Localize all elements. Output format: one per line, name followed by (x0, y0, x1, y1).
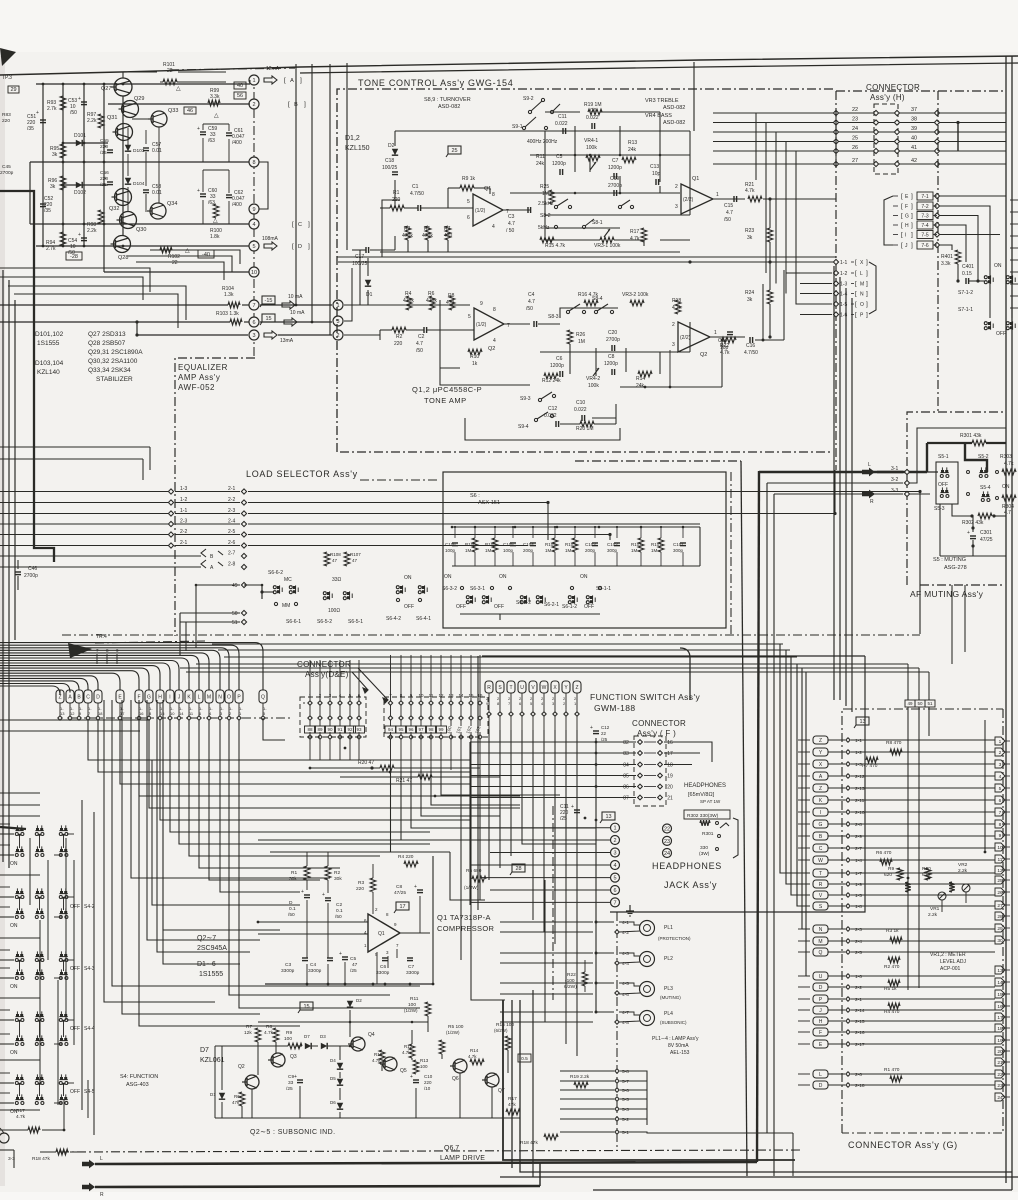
svg-text:200p: 200p (585, 548, 596, 553)
svg-text:ON: ON (499, 574, 507, 580)
wire vert (939, 504, 941, 556)
dashdot bottom rail (60, 1150, 800, 1152)
junction dots staircase (344, 747, 347, 750)
connector stadium E (116, 690, 124, 703)
svg-text:83: 83 (623, 751, 629, 757)
svg-text:R303: R303 (1000, 454, 1012, 460)
svg-text:Q2: Q2 (238, 1064, 245, 1070)
diode D2 top (347, 1001, 353, 1007)
svg-text:R7: R7 (246, 1024, 252, 1030)
pot symbol VR1 (938, 892, 946, 900)
svg-text:D2: D2 (356, 998, 362, 1003)
svg-text:S8-4: S8-4 (592, 296, 603, 302)
wire compressor gnd bus (265, 983, 433, 985)
svg-text:82: 82 (623, 740, 629, 746)
wire row feed2 (0, 967, 10, 969)
svg-text:/10: /10 (424, 1086, 431, 1091)
wire sub out right (430, 932, 433, 934)
switch b (1010, 322, 1013, 325)
svg-text:7-6: 7-6 (921, 243, 928, 249)
svg-text:S6-2-2: S6-2-2 (516, 600, 531, 606)
svg-text:Q: Q (819, 950, 823, 956)
svg-text:Q2∼7: Q2∼7 (197, 935, 216, 942)
wire (713, 198, 734, 200)
svg-text:7: 7 (252, 303, 255, 309)
flag -15 (262, 296, 275, 304)
connector G row V 1-5 (813, 891, 828, 899)
jack contacts (700, 820, 710, 826)
TR.4 dashdot (95, 641, 205, 643)
wire right bus (699, 527, 701, 566)
svg-text:TONE AMP: TONE AMP (424, 396, 467, 405)
wire pair link (19, 835, 21, 848)
transistor Q3 sub (271, 1053, 285, 1067)
transistor Q28 (114, 236, 131, 253)
wire R101 loop (123, 72, 157, 78)
svg-text:D1,2: D1,2 (345, 135, 360, 142)
junction (195, 584, 198, 587)
svg-text:15: 15 (997, 992, 1003, 998)
svg-text:24: 24 (997, 1095, 1003, 1101)
svg-text:ASD-082: ASD-082 (663, 105, 685, 111)
diamond under stadium (86, 716, 90, 720)
svg-text:]: ] (911, 213, 913, 220)
svg-text:OFF: OFF (456, 604, 466, 610)
connector G pin 21 (995, 1058, 1005, 1066)
svg-text:38: 38 (911, 117, 917, 123)
wire feed (0, 997, 40, 999)
svg-text:VR4-1: VR4-1 (584, 138, 598, 144)
wire vert bl (63, 1100, 65, 1130)
dashdot vertical lamp bus (552, 806, 554, 1000)
DE dash borders g1 (303, 702, 305, 704)
wire R22 stub (584, 960, 586, 972)
junction (18, 897, 20, 899)
wire stadium drop (69, 703, 71, 716)
wire stair tr (869, 640, 905, 666)
wire arc (0, 673, 120, 690)
svg-text:24: 24 (664, 851, 670, 857)
svg-text:2-1: 2-1 (228, 486, 235, 492)
svg-text:2700p: 2700p (606, 337, 620, 343)
load selector row 1-3/2-1 (0, 491, 168, 493)
svg-text:R103 1.3k: R103 1.3k (216, 311, 239, 317)
svg-text:ASG-403: ASG-403 (126, 1082, 149, 1088)
svg-text:5: 5 (613, 876, 616, 882)
svg-text:+: + (197, 188, 200, 194)
wire ch1 S8 bus a (545, 214, 690, 216)
connector G pin 26 (995, 888, 1005, 896)
svg-text:400Hz 200Hz: 400Hz 200Hz (527, 139, 558, 145)
jack pin circle 23 (663, 836, 672, 845)
svg-text:Ass'y ( F ): Ass'y ( F ) (637, 729, 676, 738)
connector G pin 19 (995, 1036, 1005, 1044)
svg-text:MM: MM (282, 603, 290, 609)
wires from 7-x to right (940, 195, 1006, 197)
diamond under stadium (58, 716, 62, 720)
svg-text:47: 47 (352, 962, 358, 968)
svg-text:1: 1 (716, 192, 719, 198)
wire stair (121, 700, 123, 848)
wire pair jog (67, 1019, 74, 1021)
AF muting dashdot box (907, 412, 1005, 585)
inner box ch1 (382, 200, 400, 257)
connector G pin 2 (995, 748, 1005, 756)
svg-text:1200p: 1200p (552, 161, 566, 167)
svg-text:24k: 24k (636, 383, 645, 389)
svg-text:22: 22 (664, 827, 670, 833)
wire arc (0, 650, 220, 690)
switch S4 contact (60, 972, 63, 975)
svg-text:0.5: 0.5 (521, 1056, 528, 1062)
diamond under stadium (207, 716, 211, 720)
stub (1010, 247, 1018, 249)
svg-text:R23: R23 (745, 228, 754, 234)
svg-text:7-5: 7-5 (921, 233, 928, 239)
junction (83, 245, 86, 248)
lamp PL4 (640, 1011, 655, 1026)
AF muting inner box (917, 428, 1006, 470)
connector G row P 2-1 (813, 995, 828, 1003)
svg-text:R2: R2 (334, 870, 340, 876)
opamp Q2 1/2 (474, 308, 504, 340)
svg-text:OFF: OFF (938, 482, 948, 488)
wire stadium drop (554, 693, 556, 712)
svg-text:]: ] (300, 77, 302, 84)
svg-text:Q3: Q3 (290, 1054, 297, 1060)
jack pin circle 5 (611, 873, 620, 882)
wire left verticals (2, 270, 4, 862)
connector G pin 22 (995, 1070, 1005, 1078)
svg-text:1M: 1M (565, 548, 572, 553)
svg-text:C45: C45 (2, 164, 11, 170)
svg-text:2-6: 2-6 (228, 540, 235, 546)
junction (619, 192, 622, 195)
wire stadium drop (499, 693, 501, 712)
switch S4 contact (16, 911, 19, 914)
wire up loop1 (762, 284, 764, 340)
diode D3 (321, 1043, 327, 1049)
svg-text:/35: /35 (44, 208, 51, 214)
svg-text:47/25: 47/25 (394, 890, 406, 896)
svg-text:/50: /50 (416, 348, 423, 354)
svg-text:30: 30 (997, 938, 1003, 944)
svg-text:2: 2 (672, 322, 675, 328)
stadium T (507, 681, 515, 693)
wire tone-load vertical links (659, 452, 661, 470)
svg-text:R22: R22 (567, 972, 576, 978)
svg-text:CONNECTOR Ass'y (G): CONNECTOR Ass'y (G) (848, 1140, 958, 1150)
svg-text:15: 15 (265, 316, 271, 322)
svg-text:C7: C7 (408, 964, 414, 970)
svg-text:8: 8 (493, 307, 496, 313)
svg-text:I: I (169, 695, 170, 701)
wire pair link (63, 835, 65, 848)
svg-text:(1/2W): (1/2W) (404, 1008, 418, 1013)
box label -28 (66, 252, 82, 260)
opamp Q1 compressor (368, 914, 400, 952)
svg-text:C5: C5 (350, 956, 356, 962)
wire left horizontals to loadselector (0, 446, 150, 448)
wire stair (93, 700, 95, 812)
svg-text:F: F (905, 204, 908, 210)
svg-text:2.7k: 2.7k (46, 246, 56, 252)
wire staircase (170, 720, 430, 832)
svg-text:KZL150: KZL150 (345, 145, 370, 152)
svg-text:5-6: 5-6 (622, 1088, 629, 1094)
wire stair tr (771, 640, 905, 659)
jack pin circle 3 (611, 848, 620, 857)
connector DE box 88 (305, 726, 316, 733)
wire pair link (19, 961, 21, 971)
svg-text:Q1: Q1 (378, 931, 385, 937)
stadium V (529, 681, 537, 693)
equalizer box dashdot border (175, 358, 255, 636)
flag 13 (602, 812, 615, 820)
svg-text:Q34: Q34 (167, 201, 177, 207)
svg-text:4.7/50: 4.7/50 (744, 350, 758, 356)
wire stadium drop (219, 703, 221, 716)
junction (62, 1020, 64, 1022)
junction (62, 960, 64, 962)
svg-text:R14: R14 (470, 1048, 479, 1053)
R302 330 3W box (684, 810, 730, 819)
svg-text:2-9: 2-9 (855, 834, 862, 840)
stadium U (518, 681, 526, 693)
wire top second border line (300, 63, 1018, 73)
wire bus vertical x104 (103, 84, 105, 272)
svg-text:C401: C401 (962, 264, 974, 270)
switch S4 contact (36, 972, 39, 975)
svg-text:3: 3 (672, 342, 675, 348)
svg-text:20: 20 (667, 785, 673, 791)
connector G row H 2-15 (813, 1017, 828, 1025)
svg-text:2-5: 2-5 (228, 529, 235, 535)
wire stadium drop (532, 693, 534, 712)
transistor Q7 sub (485, 1073, 499, 1087)
switch S7-1-2 (988, 276, 991, 279)
svg-text:C3: C3 (285, 962, 291, 968)
svg-text:-40: -40 (202, 252, 210, 258)
svg-text:D3: D3 (320, 1034, 326, 1039)
nested feedback loops (150, 250, 240, 264)
svg-text:6: 6 (467, 215, 470, 221)
svg-text:1M: 1M (545, 548, 552, 553)
pin circle 3 (249, 330, 259, 340)
jack pin circle 2 (611, 836, 620, 845)
wire row feed2 (0, 906, 10, 908)
svg-text:94: 94 (388, 727, 394, 732)
wire row feed (0, 833, 14, 835)
diamond under stadium (227, 716, 231, 720)
svg-text:10: 10 (997, 845, 1003, 851)
wire row feed2 (0, 823, 10, 825)
connector G pin 1 (995, 737, 1005, 745)
svg-text:3-2: 3-2 (891, 477, 898, 483)
svg-text:C10: C10 (424, 1074, 433, 1079)
svg-text:Q31: Q31 (107, 115, 117, 121)
svg-text:[: [ (855, 270, 857, 277)
svg-text:88: 88 (307, 727, 313, 732)
svg-text:95: 95 (398, 727, 404, 732)
svg-text:[: [ (855, 291, 857, 298)
svg-text:(2/2): (2/2) (680, 335, 691, 341)
svg-text:S6-2-1: S6-2-1 (544, 602, 559, 608)
pin circle T3 (333, 316, 343, 326)
connector G pin 16 (995, 1002, 1005, 1010)
svg-text:N: N (218, 695, 222, 701)
svg-text:0.1: 0.1 (289, 906, 296, 912)
svg-text:S6-5-2: S6-5-2 (317, 619, 332, 625)
wire pin column dashdot (253, 75, 255, 358)
junction (18, 1020, 20, 1022)
svg-text:1M: 1M (578, 339, 585, 345)
svg-text:2: 2 (613, 838, 616, 844)
svg-text:D1∼6: D1∼6 (197, 961, 216, 968)
wire stadium drop (169, 703, 171, 716)
switch S4 contact (16, 1038, 19, 1041)
svg-text:H: H (158, 695, 162, 701)
connector H row 22/37 (713, 112, 1006, 114)
switch S4 contact (36, 828, 39, 831)
svg-text:1-1: 1-1 (180, 508, 187, 514)
svg-text:S6-3-1: S6-3-1 (470, 586, 485, 592)
junction (38, 897, 40, 899)
wire staircase (179, 720, 430, 844)
opamp Q1 2/2 (681, 184, 713, 214)
svg-text:OFF: OFF (494, 604, 504, 610)
svg-text:Q1 TA7318P-A: Q1 TA7318P-A (437, 913, 491, 922)
svg-text:C7: C7 (612, 158, 619, 164)
svg-text:+: + (410, 1074, 413, 1080)
svg-text:98: 98 (428, 727, 434, 732)
svg-text:Q33: Q33 (168, 108, 178, 114)
svg-text:22: 22 (601, 731, 607, 736)
wire pin8 loop (259, 162, 268, 209)
diamond under stadium (261, 716, 265, 720)
svg-text:C20: C20 (608, 330, 617, 336)
switch S4 contact (16, 1077, 19, 1080)
svg-text:4-2: 4-2 (622, 930, 629, 936)
svg-text:S9-2: S9-2 (523, 96, 534, 102)
junction (574, 154, 577, 157)
svg-text:16: 16 (139, 711, 144, 716)
wire arc (0, 655, 199, 690)
svg-text:2-17: 2-17 (855, 1042, 865, 1048)
wire fan (131, 700, 330, 878)
svg-text:2-2: 2-2 (228, 497, 235, 503)
connector stadium Q (259, 690, 267, 703)
svg-text:100/25: 100/25 (382, 165, 398, 171)
connector G row K 2-11 (813, 796, 828, 804)
svg-text:S9-4: S9-4 (518, 424, 529, 430)
svg-text:ON: ON (10, 1050, 18, 1056)
junction (62, 245, 65, 248)
svg-text:300p: 300p (673, 548, 684, 553)
stadium W (540, 681, 548, 693)
svg-text:+: + (294, 1074, 297, 1080)
connector H row 26/41 (713, 150, 1006, 152)
diamond under stadium (68, 716, 72, 720)
svg-text:JACK Ass'y: JACK Ass'y (664, 880, 717, 890)
svg-text:]: ] (866, 270, 868, 277)
switch S4 contact (36, 1097, 39, 1100)
svg-text:/25: /25 (286, 1086, 293, 1092)
tone control top dashdot to right (836, 90, 1005, 92)
svg-text:]: ] (911, 203, 913, 210)
wire stadium drop (262, 703, 264, 716)
svg-text:S6-6-2: S6-6-2 (268, 570, 283, 576)
wire pair link (63, 1021, 65, 1037)
svg-text:Z: Z (819, 738, 822, 744)
svg-text:4-4: 4-4 (622, 961, 629, 967)
connector stadium G (145, 690, 153, 703)
svg-text:]: ] (308, 243, 310, 250)
wire feed (0, 815, 40, 817)
svg-text:]: ] (866, 291, 868, 298)
connector G pin 25 (995, 876, 1005, 884)
wire routing h4 (0, 730, 140, 732)
svg-text:+: + (78, 96, 81, 102)
svg-text:L: L (198, 695, 201, 701)
DE arrow 1 (352, 672, 368, 693)
svg-text:97: 97 (418, 727, 424, 732)
switch S4 contact (60, 1014, 63, 1017)
stub (1010, 223, 1018, 225)
svg-text:3300p: 3300p (281, 968, 295, 974)
svg-text:L: L (819, 1072, 822, 1078)
thick vertical L speaker line (757, 471, 759, 1162)
wire AF drop a (951, 585, 953, 664)
wires 1x to left (800, 272, 832, 274)
svg-text:(1/2): (1/2) (476, 322, 487, 328)
svg-text:1-1: 1-1 (855, 738, 862, 744)
wire A B feeds (0, 555, 201, 557)
svg-text:28: 28 (997, 914, 1003, 920)
svg-text:9: 9 (480, 301, 483, 307)
svg-text:220: 220 (356, 886, 364, 892)
connector G row X 1-3 (813, 760, 828, 768)
junction (598, 526, 601, 529)
wire row feed2 (0, 886, 10, 888)
svg-text:14: 14 (179, 711, 184, 716)
svg-text:S4-5: S4-5 (84, 1089, 95, 1095)
svg-text:KZL061: KZL061 (200, 1057, 225, 1064)
wire rail y224 (30, 223, 250, 225)
connector H row 23/38 (713, 122, 1006, 124)
junction (42, 83, 45, 86)
wire stair (138, 700, 140, 872)
svg-text:G: G (147, 695, 151, 701)
svg-text:R: R (100, 1192, 104, 1198)
wire arc (0, 661, 179, 691)
switch S4 contact (36, 849, 39, 852)
svg-text:42: 42 (911, 158, 917, 164)
wire stair (130, 700, 132, 860)
connector G pin 20 (995, 1047, 1005, 1055)
svg-text:+: + (197, 126, 200, 132)
svg-text:D7: D7 (200, 1047, 209, 1054)
svg-text:5: 5 (252, 244, 255, 250)
wire switch bottoms (460, 613, 600, 615)
svg-text:46: 46 (187, 108, 193, 114)
svg-text:/ 50: / 50 (506, 228, 515, 234)
svg-text:3300p: 3300p (406, 970, 420, 976)
wire pair link (19, 898, 21, 910)
svg-text:40: 40 (911, 136, 917, 142)
wire stair lines right (94, 812, 240, 1132)
stub (1010, 283, 1018, 285)
